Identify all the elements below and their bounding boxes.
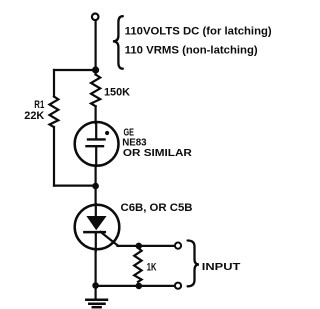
node D junction	[92, 282, 99, 289]
terminal T1 supply input	[92, 13, 99, 20]
svg-text:C6B, OR C5B: C6B, OR C5B	[121, 202, 193, 214]
SCR U1 circle	[75, 205, 120, 250]
terminal input lower	[175, 283, 181, 289]
svg-text:150K: 150K	[104, 87, 130, 99]
svg-text:110 VRMS (non-latching): 110 VRMS (non-latching)	[125, 45, 258, 57]
SCR anode lead	[95, 204, 97, 217]
SCR cathode lead	[95, 232, 97, 251]
wire: SCR cathode to node D	[94, 251, 96, 286]
neon lamp NE83 circle	[75, 122, 119, 166]
resistor 1K zigzag	[134, 249, 141, 282]
node E junction	[136, 283, 143, 290]
neon lamp lower electrode bar	[87, 145, 104, 147]
SCR cathode bar	[84, 231, 104, 234]
svg-text:INPUT: INPUT	[202, 262, 241, 273]
wire: left branch vertical upper	[53, 70, 55, 97]
neon lamp bottom electrode lead	[95, 146, 97, 165]
node B junction	[92, 183, 99, 190]
node C junction	[136, 243, 143, 250]
neon lamp top electrode lead	[95, 123, 97, 139]
ground symbol	[86, 300, 107, 307]
brace for input label	[188, 241, 199, 287]
wire: neon lamp to node B	[94, 165, 96, 186]
SCR gate diagonal lead	[101, 232, 119, 246]
wire: T1 down to node A	[94, 21, 96, 70]
wire: left branch vertical lower	[53, 127, 55, 186]
neon lamp indicator dot	[105, 131, 109, 135]
wire: node D to input terminal lower	[96, 285, 174, 287]
svg-text:22K: 22K	[24, 110, 44, 122]
svg-text:1K: 1K	[147, 261, 157, 273]
svg-text:NE83: NE83	[122, 138, 147, 149]
wire: left branch bottom to node B	[54, 185, 96, 187]
neon lamp upper electrode bar	[88, 138, 105, 140]
wire: gate to input terminal upper	[118, 245, 175, 247]
node A junction	[92, 66, 99, 73]
svg-text:OR SIMILAR: OR SIMILAR	[123, 148, 193, 159]
wire: 150K to neon lamp	[94, 106, 96, 123]
wire: node D to ground	[94, 286, 96, 300]
svg-text:110VOLTS DC (for latching): 110VOLTS DC (for latching)	[125, 26, 272, 38]
resistor 150K zigzag	[91, 75, 100, 107]
wire: node B to SCR	[94, 186, 96, 204]
SCR triangle	[86, 216, 106, 230]
wire: node A left to R1 branch	[54, 69, 96, 71]
brace for supply labels	[113, 16, 123, 68]
terminal input upper	[175, 243, 181, 249]
resistor R1 zigzag	[50, 97, 59, 128]
wire: node A down to 150K	[94, 70, 96, 75]
